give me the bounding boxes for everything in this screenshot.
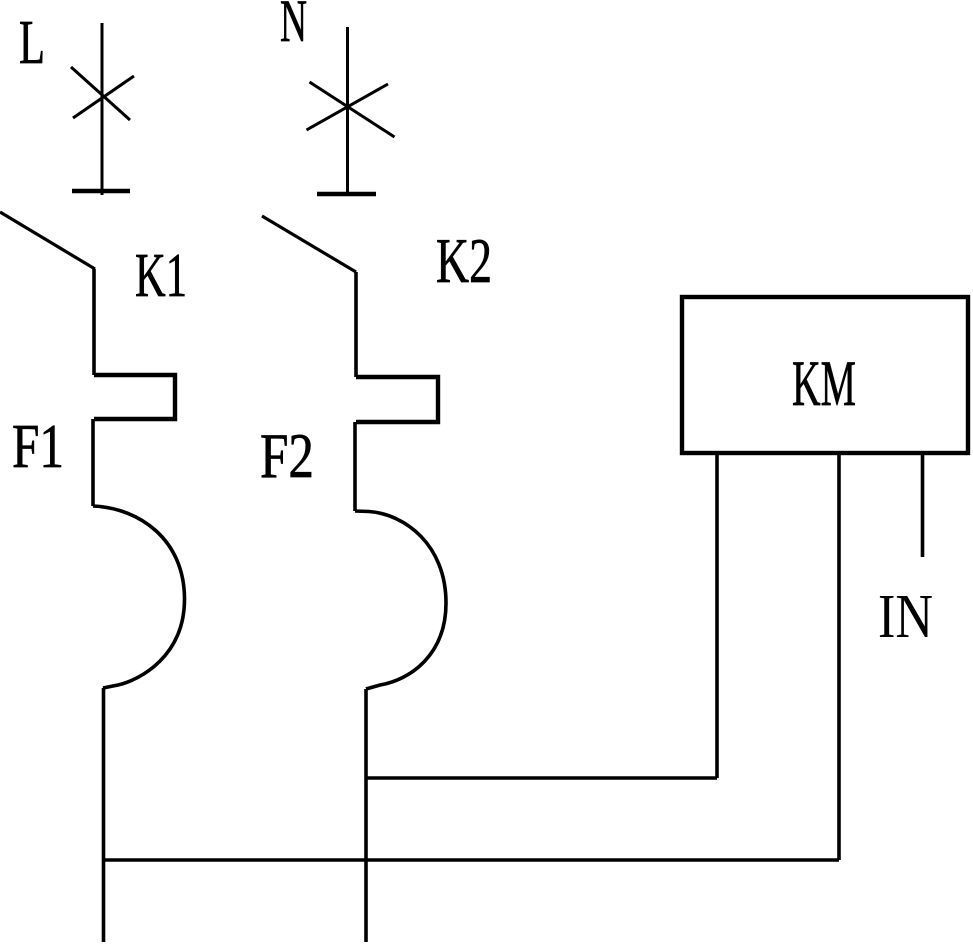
svg-text:L: L xyxy=(19,9,45,77)
svg-text:KM: KM xyxy=(792,348,856,420)
svg-text:F2: F2 xyxy=(260,421,314,491)
svg-text:N: N xyxy=(280,0,307,54)
svg-text:IN: IN xyxy=(878,583,933,651)
svg-text:K2: K2 xyxy=(436,226,492,296)
svg-text:K1: K1 xyxy=(135,242,187,310)
svg-text:F1: F1 xyxy=(12,413,64,481)
